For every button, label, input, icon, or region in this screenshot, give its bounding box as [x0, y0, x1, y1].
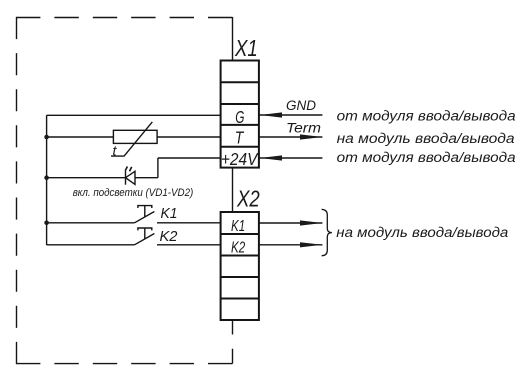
- switch K2 blade: [135, 234, 155, 245]
- svg-text:вкл. подсветки (VD1-VD2): вкл. подсветки (VD1-VD2): [73, 187, 194, 199]
- svg-text:+24V: +24V: [221, 149, 260, 169]
- wire LED row left: [47, 177, 126, 179]
- svg-text:K2: K2: [160, 228, 179, 245]
- connector X2 cell dividers: [221, 234, 259, 299]
- svg-text:K1: K1: [231, 218, 245, 235]
- connector X1 outline: [221, 61, 259, 168]
- dashed enclosure left edge: [16, 17, 18, 364]
- wire LED to corner: [135, 177, 158, 179]
- wire spine between X1 and X2: [232, 168, 234, 212]
- junction node LED row: [44, 175, 49, 180]
- LED VD1-VD2 cathode bar: [125, 171, 127, 185]
- arrowhead GND into X1: [260, 112, 282, 117]
- wire K1 arrow line: [259, 222, 323, 224]
- svg-text:G: G: [235, 107, 244, 127]
- switch K1 blade: [135, 212, 155, 223]
- dashed enclosure right edge lower part: [232, 320, 234, 364]
- wire K2 arrow line: [259, 244, 323, 246]
- svg-text:X1: X1: [234, 35, 258, 61]
- wire thermistor to X1 pin T: [157, 136, 221, 138]
- svg-text:Term: Term: [286, 121, 321, 136]
- arrowhead +24V into X1: [260, 155, 282, 160]
- svg-text:на модуль ввода/вывода: на модуль ввода/вывода: [336, 225, 509, 240]
- thermistor R1 strike line: [111, 122, 152, 156]
- switch K2 wire left: [47, 244, 135, 246]
- wire left bus vertical: [46, 115, 48, 245]
- switch K2 wire right to X2: [157, 244, 221, 246]
- wire G row left: [47, 114, 221, 116]
- svg-text:X2: X2: [236, 186, 260, 212]
- dashed enclosure bottom edge: [16, 363, 233, 365]
- junction node T row: [44, 135, 49, 140]
- svg-text:от модуля ввода/вывода: от модуля ввода/вывода: [337, 150, 517, 165]
- switch K2 actuator: [138, 228, 152, 239]
- thermistor R1 body: [113, 130, 157, 143]
- dashed enclosure top edge: [16, 17, 233, 19]
- arrowhead K2 out: [300, 242, 322, 247]
- wire T row left to thermistor: [47, 136, 114, 138]
- connector X2 outline: [221, 212, 259, 320]
- arrowhead K1 out: [300, 220, 322, 225]
- wire Term arrow line: [259, 136, 323, 138]
- LED VD1-VD2 emission arrows: [125, 167, 132, 172]
- wire GND arrow line: [259, 114, 323, 116]
- junction node K1 row: [44, 221, 49, 226]
- wire from enclosure top corner to connector X1: [232, 17, 234, 61]
- connector X1 cell dividers: [221, 82, 259, 146]
- svg-text:на модуль ввода/вывода: на модуль ввода/вывода: [337, 131, 516, 146]
- switch K1 wire left: [47, 222, 135, 224]
- svg-text:K1: K1: [161, 205, 178, 222]
- wire +24V arrow line: [259, 157, 323, 159]
- brace for X2 outputs: [322, 209, 332, 255]
- switch K1 actuator: [138, 206, 152, 217]
- svg-text:от модуля ввода/вывода: от модуля ввода/вывода: [337, 109, 517, 124]
- wire corner up to +24V row: [157, 158, 159, 178]
- svg-text:T: T: [235, 128, 245, 148]
- svg-text:GND: GND: [286, 98, 316, 113]
- switch K1 wire right to X2: [157, 222, 221, 224]
- svg-text:K2: K2: [231, 239, 245, 256]
- arrowhead Term out: [300, 134, 322, 139]
- LED VD1-VD2 triangle: [126, 171, 136, 184]
- wire +24V row into X1: [158, 157, 221, 159]
